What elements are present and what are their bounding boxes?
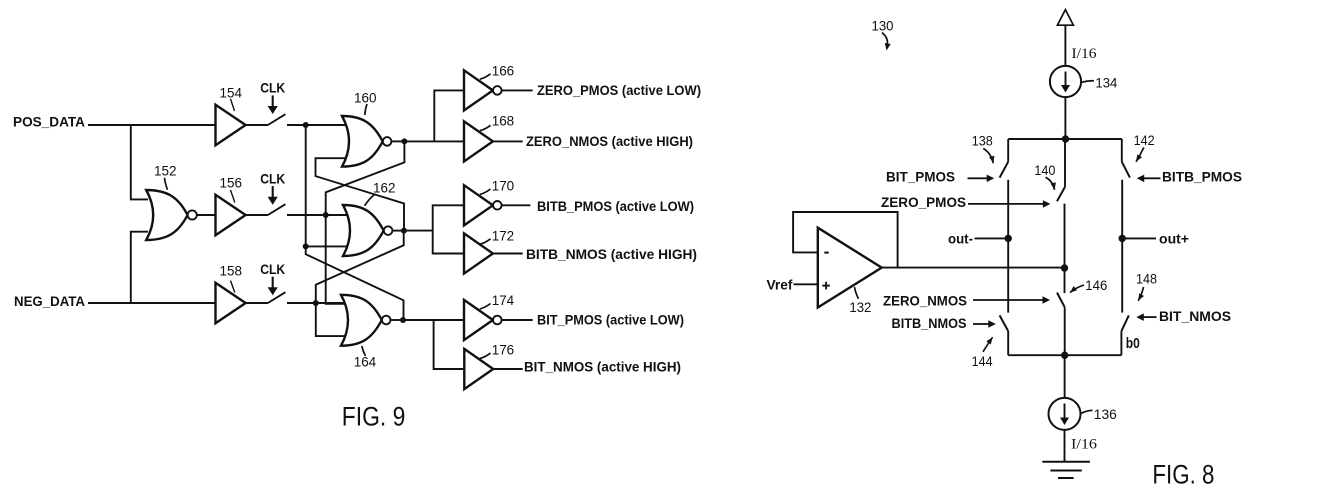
svg-text:130: 130 [872,17,894,33]
leader line for 156 [231,190,235,203]
wire buffer 158 output [246,302,268,304]
wire NOR 164 output to inverter 174 [403,319,464,321]
inverter 172 [464,233,493,273]
CLK arrow (row 154) [272,95,274,107]
svg-text:ZERO_NMOS (active HIGH): ZERO_NMOS (active HIGH) [526,133,693,149]
svg-text:140: 140 [1034,162,1055,178]
svg-text:174: 174 [492,292,515,308]
buffer 154 [216,105,246,145]
leader arrow for 144 [983,337,993,352]
buffer 158 [216,283,246,323]
svg-text:170: 170 [492,178,515,194]
switch 148 blade [1121,315,1128,331]
svg-text:b0: b0 [1126,336,1140,352]
switch 138 blade [1000,162,1009,178]
svg-text:BIT_NMOS (active HIGH): BIT_NMOS (active HIGH) [524,358,681,374]
wire NOR 160 output to inverter 168 [404,140,464,142]
svg-text:ZERO_NMOS: ZERO_NMOS [883,292,967,308]
bottom rail wire [1008,354,1121,356]
leader line for 162 [365,195,375,206]
inverter 168 [464,121,493,161]
inverter 174 [464,300,493,340]
wire NOR 162 output to row3 (diagonal) [316,231,404,303]
leader line for 170 [480,189,491,194]
junction node NOR 162 input B [303,243,309,249]
bubble of inverter 166 [493,86,502,95]
leader arrow for 138 [983,149,993,164]
svg-text:CLK: CLK [260,80,285,96]
svg-text:ZERO_PMOS: ZERO_PMOS [881,194,966,210]
wire NOR 160 output [391,140,404,142]
wire NOR 152 output to buffer 156 [197,214,216,216]
arrow BITB_PMOS to switch 142 [1144,177,1161,179]
svg-text:BITB_NMOS: BITB_NMOS [892,315,967,331]
current source 134 circle [1050,66,1081,97]
current source 136 circle [1049,398,1081,430]
wire NOR 160 input B from NOR 162 output (diagonal) [316,158,405,230]
wire switch 148 to bottom rail [1120,331,1122,355]
current source 136 arrow [1064,404,1066,419]
wire inverter 174 output [502,319,533,321]
wire NOR 164 output [391,319,404,321]
current source 134 arrow [1065,72,1067,87]
arrow ZERO_PMOS to switch 140 [968,203,1043,205]
switch 142 blade [1122,162,1130,178]
wire switch (row 154) to latch [287,124,347,126]
ground symbol [1042,461,1090,463]
junction node op-amp output [1061,264,1068,271]
switch 140 upper contact [1064,139,1066,187]
svg-text:CLK: CLK [260,170,285,186]
svg-text:172: 172 [492,227,515,243]
junction node row3 [313,300,319,306]
leader line for 158 [231,281,235,293]
leader line for 168 [480,125,491,130]
svg-text:BITB_PMOS (active LOW): BITB_PMOS (active LOW) [537,198,694,214]
arrow ZERO_NMOS to switch 146 [973,299,1043,301]
wire supply to current source 134 [1064,25,1066,66]
leader line for 152 [165,178,168,190]
output node NOR 162 [401,228,407,234]
bubble of inverter 174 [493,316,502,325]
svg-text:134: 134 [1095,74,1117,90]
inverter 166 [464,70,493,110]
bubble of NOR 152 [188,210,197,219]
svg-text:162: 162 [373,180,396,196]
svg-text:132: 132 [849,299,871,315]
wire NOR 162 input B to NOR 164 output (diagonal) [306,246,404,320]
bubble of NOR 164 [382,316,391,325]
op-amp minus input marker [824,252,828,254]
svg-text:152: 152 [154,163,177,179]
wire op-amp output [882,267,1065,269]
wire buffer 154 output [246,124,268,126]
leader line for 166 [480,74,491,79]
wire NOR 162 output [392,230,404,232]
leader arrow for 142 [1136,148,1144,162]
wire switch (row 156) to latch [287,214,347,216]
wire NEG_DATA branch to NOR 152 input B [131,232,148,303]
leader arrow for 148 [1138,287,1143,301]
svg-text:154: 154 [220,84,243,100]
switch blade (row 158) [268,292,286,303]
wire out+ to right branch [1122,237,1156,239]
leader arrow for 146 [1070,285,1084,293]
inverter 176 [464,349,493,389]
wire bottom rail to current source 136 [1064,355,1066,398]
junction node row1 [303,122,309,128]
op-amp plus input marker [822,285,830,287]
svg-text:NEG_DATA: NEG_DATA [14,294,85,309]
wire inverter 170 output [502,204,531,206]
leader arrow for 140 [1046,177,1055,190]
junction node bottom rail [1061,352,1068,359]
leader line for 172 [480,239,491,244]
svg-text:BITB_PMOS: BITB_PMOS [1162,168,1242,184]
svg-text:142: 142 [1134,132,1155,148]
wire bracket to inverters 170 and 172 [433,205,464,253]
wire switch 146 lower contact to bottom rail [1064,307,1066,355]
svg-text:138: 138 [972,133,993,149]
arrow BIT_NMOS to switch 148 [1143,316,1156,318]
wire NEG_DATA input [88,302,216,304]
wire switch 142 to out+ node [1121,180,1123,313]
junction node top rail [1062,135,1069,142]
svg-text:168: 168 [492,112,515,128]
svg-text:FIG. 8: FIG. 8 [1152,459,1214,489]
wire inverter 176 output [493,368,523,370]
wire inverter 172 output [493,253,523,255]
inverter 170 [464,185,493,225]
bubble of NOR 162 [384,226,393,235]
svg-text:158: 158 [220,262,243,278]
leader line for 176 [480,353,491,358]
junction node out- [1005,235,1012,242]
svg-text:146: 146 [1085,277,1107,293]
NOR gate 164 [341,295,382,346]
leader line for 174 [480,304,491,309]
svg-text:144: 144 [972,353,993,369]
NOR gate 152 [146,190,187,240]
leader arrow for 130 [882,33,887,45]
switch 144 blade [1000,315,1009,331]
leader line for 132 [855,287,859,299]
wire Vref to op-amp [794,283,818,285]
wire NOR 160 output to row2 / NOR 164 input A [326,141,405,303]
wire row3 loop to NOR 164 input B [316,303,347,336]
svg-text:148: 148 [1136,271,1157,287]
svg-text:166: 166 [492,63,515,79]
svg-text:BITB_NMOS (active HIGH): BITB_NMOS (active HIGH) [526,246,697,262]
svg-text:156: 156 [220,174,243,190]
switch 138 upper contact [1007,139,1009,162]
buffer 156 [216,195,246,235]
svg-text:FIG. 9: FIG. 9 [342,402,406,432]
CLK arrow (row 156) [272,186,274,198]
wire current source 134 to top rail [1064,97,1066,139]
svg-text:160: 160 [354,89,377,105]
wire POS_DATA input [88,124,216,126]
op-amp 132 [818,228,882,308]
svg-text:out-: out- [948,230,973,246]
switch 140 blade [1057,187,1065,201]
leader line for 164 [362,346,366,356]
svg-text:out+: out+ [1159,230,1189,246]
CLK arrow (row 158) [272,277,274,289]
leader line for 154 [231,99,235,111]
supply symbol (open triangle) [1057,10,1073,26]
leader line for 136 [1081,410,1093,413]
switch blade (row 154) [268,114,286,125]
switch 142 upper contact [1121,139,1123,162]
wire out- to left branch [975,237,1009,239]
svg-text:POS_DATA: POS_DATA [13,115,85,130]
svg-text:BIT_PMOS: BIT_PMOS [886,168,955,184]
svg-text:Vref: Vref [767,277,793,293]
wire inverter 166 output [502,89,533,91]
top rail wire [1008,138,1122,140]
leader line for 134 [1082,81,1094,83]
svg-text:I/16: I/16 [1071,437,1097,453]
svg-text:ZERO_PMOS (active LOW): ZERO_PMOS (active LOW) [537,82,701,98]
wire branch to inverter 166 [434,90,464,141]
junction node out+ [1119,235,1126,242]
svg-text:CLK: CLK [260,261,285,277]
wire buffer 156 output [246,214,268,216]
wire switch (row 158) to latch [287,302,347,304]
svg-text:BIT_NMOS: BIT_NMOS [1159,308,1231,324]
wire row1 vertical to NOR 162 input B [306,125,347,246]
junction node row2 [323,212,329,218]
output node NOR 164 [400,317,406,323]
wire switch 138 to out- node [1007,180,1009,313]
op-amp 132 feedback wire [793,212,898,268]
output node NOR 160 [401,138,407,144]
bubble of inverter 170 [493,201,502,210]
wire switch 140 lower contact [1064,204,1066,294]
svg-text:BIT_PMOS (active LOW): BIT_PMOS (active LOW) [537,311,684,327]
switch blade (row 156) [268,204,286,215]
NOR gate 160 [342,116,383,167]
switch 146 blade [1057,293,1065,308]
arrow BITB_NMOS to switch 144 [973,323,989,325]
svg-text:176: 176 [492,342,515,358]
wire current source 136 to ground [1064,430,1066,462]
wire inverter 168 output [493,140,523,142]
wire POS_DATA branch to NOR 152 input A [131,125,148,199]
NOR gate 162 [343,205,384,256]
wire NOR 162 output to inverter bracket [404,230,433,232]
arrow BIT_PMOS to switch 138 [968,177,988,179]
svg-text:I/16: I/16 [1072,46,1097,62]
leader line for 160 [365,104,367,115]
wire branch to inverter 176 [434,320,465,369]
wire switch 144 to bottom rail [1007,331,1009,355]
svg-text:136: 136 [1094,406,1117,422]
bubble of NOR 160 [383,137,392,146]
